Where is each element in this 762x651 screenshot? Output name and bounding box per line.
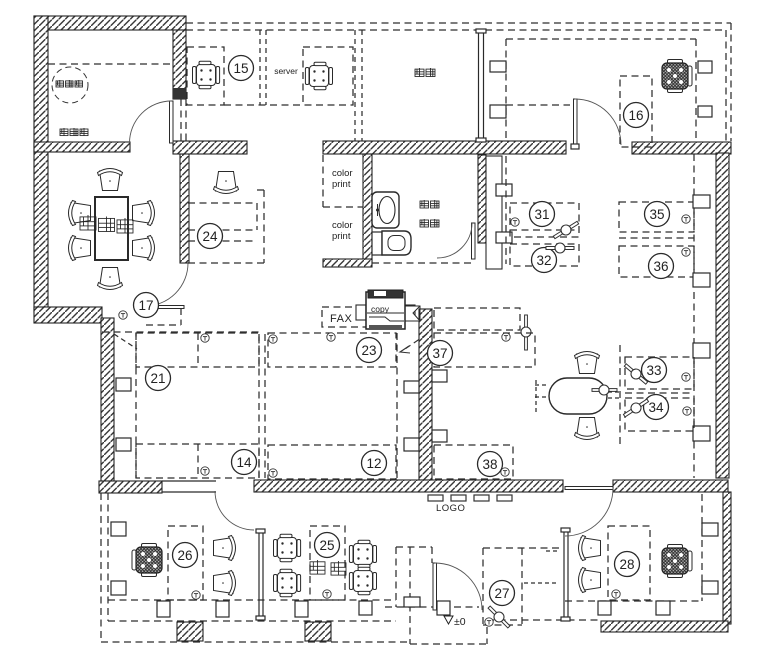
- diagonal dashed: corner room 21: [114, 334, 137, 349]
- server chair right: [305, 62, 332, 90]
- LOGO dash strip: [428, 495, 443, 501]
- guest chair 25 left b: [274, 569, 301, 597]
- sink unit: [372, 192, 399, 228]
- dashed link table left b: [535, 396, 549, 398]
- dashed partition: along right wall: [693, 154, 695, 478]
- dashed: cloak right lower outer: [185, 99, 187, 142]
- door leaf: entry: [433, 563, 437, 610]
- dashed link table right a: [608, 391, 620, 393]
- wall: bathroom right: [478, 155, 486, 243]
- room circle 24: [198, 224, 223, 249]
- svg-text:server: server: [274, 66, 298, 76]
- dashed: cloak right lower inner: [180, 99, 182, 142]
- meeting chair left 1: [69, 201, 91, 226]
- dashed: corridor line below bathroom: [372, 262, 473, 264]
- wall pier: bottom-left 1: [177, 622, 203, 641]
- cabinet right-wall 3: [693, 343, 710, 358]
- svg-text:LOGO: LOGO: [436, 503, 465, 514]
- desk 31: [510, 203, 579, 237]
- dashed wall: left lower inner: [107, 493, 109, 621]
- room circle 32: [532, 248, 557, 273]
- vestibule outer right: [486, 627, 488, 644]
- svg-text:color: color: [332, 220, 353, 231]
- guest chair 25 right b: [349, 567, 376, 595]
- circled-T symbol: [201, 467, 209, 475]
- desk 14 divider: [197, 444, 199, 478]
- cabinet right-wall 1: [693, 195, 710, 208]
- cabinet bath-right lower: [496, 232, 512, 243]
- wall block: cloak right end: [173, 88, 186, 99]
- wall: meeting room right: [180, 152, 189, 263]
- wall: corridor top band C: [632, 142, 731, 154]
- cabinet 28 upper: [702, 523, 718, 536]
- cabinet left-wall upper: [116, 378, 131, 391]
- room 27 top boundary: [483, 547, 563, 549]
- svg-text:31: 31: [534, 207, 549, 222]
- meeting chair right 2: [133, 236, 155, 261]
- wall: right outer upper: [716, 153, 729, 478]
- svg-text:print: print: [332, 179, 351, 190]
- desk 27 left: [482, 548, 484, 625]
- desk 24 right upper: [256, 203, 258, 230]
- label: toilet (2 CJK glyphs): [420, 200, 429, 208]
- cabinet 28 lower: [702, 581, 718, 594]
- room circle 38: [478, 452, 503, 477]
- dashed partition: room16 right: [695, 39, 697, 142]
- furniture leg 5: [437, 601, 450, 615]
- lamp pole right of desk: [521, 315, 531, 350]
- dashed link table right b: [608, 397, 620, 399]
- cabinet 26 wall lower: [111, 581, 126, 595]
- vestibule right upper: [431, 547, 433, 563]
- FAX desk: [322, 307, 399, 327]
- desk 24 mid a: [188, 229, 257, 231]
- circled-T symbol: [327, 333, 335, 341]
- label: reception glyph 2: [331, 561, 346, 575]
- guest chair 26 a: [214, 536, 236, 561]
- dashed corridor line a: [258, 334, 260, 478]
- dashed: room 21 top boundary: [102, 331, 259, 333]
- furniture leg 3: [295, 601, 308, 617]
- wall: meeting room bottom: [34, 307, 102, 323]
- circled-T symbol: [323, 590, 331, 598]
- glass partition 27/28 line a: [563, 531, 565, 620]
- cabinet on spine right lower: [432, 430, 447, 442]
- dashed wall: bottom outer: [101, 641, 410, 643]
- svg-text:print: print: [332, 231, 351, 242]
- dashed: color print divider: [323, 206, 363, 208]
- svg-text:35: 35: [649, 207, 664, 222]
- guest chair 25 left a: [274, 534, 301, 562]
- svg-text:25: 25: [319, 538, 334, 553]
- dashed partition: 31 left: [505, 156, 507, 264]
- circled-T symbol: [269, 335, 277, 343]
- label: storage room (2 CJK glyphs): [415, 68, 424, 77]
- room circle 37: [428, 341, 453, 366]
- task lamp 32: [546, 243, 574, 253]
- dashed corridor line b: [264, 334, 266, 478]
- cabinet 26 wall upper: [111, 522, 126, 536]
- circled-T symbol: [501, 468, 509, 476]
- level mark triangle: [444, 616, 453, 624]
- desk 24 right hook h: [257, 189, 264, 191]
- room circle 25: [315, 533, 340, 558]
- wall: right outer lower: [723, 492, 731, 624]
- room circle 31: [530, 202, 555, 227]
- dashed: bottom edge right of vestibule: [487, 619, 601, 621]
- furniture leg 4: [359, 601, 372, 615]
- dashed partition: central corridor: [396, 333, 398, 479]
- partition server left b: [265, 30, 267, 105]
- desk 24 bottom: [188, 262, 264, 264]
- guest chair 28 b: [579, 568, 601, 593]
- task lamp 27: [486, 604, 513, 631]
- desk 23: [268, 333, 396, 367]
- svg-text:15: 15: [233, 61, 248, 76]
- door leaf: room 16: [574, 99, 578, 144]
- dashed partition: rooms 21/14 left: [135, 333, 137, 478]
- room circle 14: [232, 450, 257, 475]
- door arc: bathroom: [437, 223, 472, 258]
- svg-text:23: 23: [361, 343, 376, 358]
- desk 25 (reception table): [310, 526, 345, 600]
- chair above table: [575, 352, 600, 374]
- cabinet column right of bathroom: [486, 156, 502, 269]
- window cap bottom: [476, 138, 486, 142]
- desk 34: [625, 398, 694, 431]
- circled-T symbol: [119, 311, 127, 319]
- room circle 21: [146, 366, 171, 391]
- guest chair 25 right a: [349, 540, 376, 568]
- oval meeting table: [549, 378, 607, 414]
- wall: color print room bottom: [323, 259, 372, 267]
- meeting table: [95, 197, 128, 260]
- label: shower (2 CJK glyphs): [420, 219, 429, 227]
- svg-text:28: 28: [619, 557, 634, 572]
- room circle 26: [173, 543, 198, 568]
- partition 28 cap bottom: [561, 617, 570, 621]
- desk 24 mid b: [188, 240, 257, 242]
- cabinet bath-right upper: [496, 184, 512, 196]
- circled-T symbol: [502, 333, 510, 341]
- circled-T symbol: [201, 334, 209, 342]
- desk 35: [619, 202, 694, 232]
- door leaf: meeting room (open flat): [139, 306, 184, 309]
- dashed: room 16 top: [506, 38, 696, 40]
- svg-text:27: 27: [494, 586, 509, 601]
- dashed circle: trash bin: [52, 67, 88, 103]
- desk 12: [268, 445, 396, 479]
- partition cap bottom: [256, 616, 265, 620]
- door arc: meeting room: [145, 263, 188, 306]
- task lamp 34: [622, 396, 651, 420]
- wall: top of cloak room: [34, 16, 186, 30]
- circled-T symbol: [683, 407, 691, 415]
- dashed partition: storage/16: [505, 39, 507, 138]
- vestibule left a: [395, 547, 397, 607]
- svg-text:16: 16: [628, 108, 643, 123]
- svg-text:FAX: FAX: [330, 313, 352, 325]
- room circle 33: [642, 358, 667, 383]
- wall: bottom band right: [613, 480, 728, 492]
- desk 32: [510, 244, 579, 266]
- server chair left: [193, 61, 220, 89]
- copy machine: [356, 290, 420, 329]
- wall: cloak room right: [173, 30, 186, 99]
- guest chair 28 a: [579, 536, 601, 561]
- circled-T symbol: [612, 590, 620, 598]
- desk 17 right edge: [180, 308, 182, 325]
- executive chair room 16: [662, 60, 692, 93]
- chair guide 28 a: [546, 550, 558, 552]
- executive chair room 28: [662, 545, 692, 578]
- desk 31 lower shelf: [510, 229, 575, 231]
- desk 38: [434, 445, 513, 479]
- glass window: storage right b: [483, 31, 485, 140]
- svg-text:±0: ±0: [454, 616, 466, 628]
- svg-text:21: 21: [150, 371, 165, 386]
- dashed bracket left of desks 33/34: [619, 345, 621, 445]
- cabinet left-wall lower: [116, 438, 131, 451]
- cabinet right-wall 4: [693, 426, 710, 441]
- door leaf: room 28 (open flat): [565, 487, 613, 490]
- thin wall line bottom (left of door 26): [162, 491, 216, 493]
- desk 36: [619, 246, 694, 277]
- door arc: room 26 entry: [215, 491, 254, 530]
- door arc: room 16: [575, 99, 621, 145]
- chair below table: [575, 418, 600, 440]
- room circle 34: [644, 395, 669, 420]
- task lamp 31: [551, 218, 580, 241]
- cabinet 16-left lower: [490, 105, 506, 118]
- desk 28: [608, 526, 650, 600]
- dashed boundary: top outer: [186, 22, 731, 24]
- door leaf: cloak room: [170, 101, 174, 143]
- vestibule outer bottom: [410, 643, 487, 645]
- circled-T symbol: [511, 218, 519, 226]
- meeting chair left 2: [69, 236, 91, 261]
- cabinet right-wall 2: [693, 273, 710, 287]
- svg-text:copy: copy: [371, 304, 390, 314]
- wall: central spine: [419, 309, 432, 480]
- svg-text:38: 38: [482, 457, 497, 472]
- cabinet on spine right upper: [432, 370, 447, 382]
- vestibule inner bottom: [385, 606, 479, 608]
- svg-text:14: 14: [236, 455, 252, 470]
- svg-text:36: 36: [653, 259, 668, 274]
- desk 14: [136, 444, 259, 478]
- room circle 23: [357, 338, 382, 363]
- desk 17 bottom: [146, 324, 181, 326]
- wall: left outer upper: [34, 16, 48, 312]
- dashed boundary: top-right vertical outer: [730, 23, 732, 141]
- chair room 24: [214, 172, 239, 194]
- label: reception glyph 1: [310, 560, 325, 574]
- svg-text:33: 33: [646, 363, 661, 378]
- circled-T symbol: [269, 469, 277, 477]
- dashed wall: left lower outer: [100, 493, 102, 642]
- partition server right b: [361, 30, 363, 141]
- cabinet on spine left upper: [404, 381, 419, 393]
- room circle 28: [615, 552, 640, 577]
- dashed partition right in room 28: [701, 494, 703, 601]
- glass partition 26/25 line a: [258, 532, 260, 619]
- label: hang raincoat (3 CJK glyphs): [60, 128, 68, 136]
- furniture leg 2: [216, 601, 229, 617]
- vestibule top: [396, 546, 432, 548]
- room circle 16: [624, 103, 649, 128]
- vestibule threshold step: [404, 597, 420, 607]
- meeting chair right 1: [133, 201, 155, 226]
- cabinet 16-right upper: [698, 61, 712, 73]
- wall: bottom band left: [99, 481, 162, 493]
- dashed shelf line in cloak room: [48, 63, 173, 65]
- desk 21 divider: [197, 333, 199, 367]
- cabinet 16-right lower: [698, 106, 712, 117]
- desk 15 left: [187, 47, 224, 105]
- svg-text:34: 34: [648, 400, 664, 415]
- room circle 36: [649, 254, 674, 279]
- thin wall line top (left of door 26): [162, 480, 216, 482]
- desk 27 bottom: [483, 624, 522, 626]
- dashed shelf line rooms 26/25: [108, 599, 396, 601]
- circled-T symbol: [485, 618, 493, 626]
- wall: cloak room bottom: [34, 142, 130, 152]
- chair guide 28 b: [524, 582, 558, 584]
- meeting chair top: [98, 169, 123, 191]
- door arc: cloak room: [130, 101, 172, 143]
- svg-text:17: 17: [138, 298, 153, 313]
- circled-T symbol: [192, 591, 200, 599]
- desk 27 right: [521, 548, 523, 625]
- wall: bottom band middle: [254, 480, 563, 492]
- circled-T symbol: [682, 373, 690, 381]
- svg-text:37: 37: [432, 346, 447, 361]
- svg-text:26: 26: [177, 548, 192, 563]
- dashed: desk 16 shelf: [506, 104, 570, 106]
- label: meeting room (3 CJK glyphs): [80, 215, 96, 230]
- executive chair room 26: [132, 544, 162, 577]
- svg-text:12: 12: [366, 456, 381, 471]
- furniture leg 1: [157, 601, 170, 617]
- desk 24 right hook v: [263, 190, 265, 263]
- wall: corridor top band A: [173, 141, 247, 154]
- label: trash bin (3 CJK glyphs): [56, 80, 64, 87]
- door arc: room 28: [565, 488, 613, 536]
- dashed shelf line room 28: [565, 600, 702, 602]
- dashed desk line server middle: [224, 104, 303, 106]
- desk 33: [625, 357, 694, 389]
- desk 16: [620, 76, 652, 147]
- room circle 27: [490, 581, 515, 606]
- furniture leg 7: [656, 601, 670, 615]
- glass window: storage right a: [478, 31, 480, 140]
- svg-text:color: color: [332, 168, 353, 179]
- dashed wall: bottom inner: [108, 620, 396, 622]
- desk 35 lower shelf: [619, 237, 694, 239]
- wall: bathroom left: [363, 154, 372, 262]
- partition 28 cap top: [561, 528, 570, 532]
- svg-text:24: 24: [202, 229, 218, 244]
- door 16 foot block: [571, 144, 579, 149]
- partition server left a: [259, 30, 261, 105]
- meeting chair bottom: [98, 268, 123, 290]
- room circle 17: [134, 293, 159, 318]
- wall: bottom-right band: [601, 621, 728, 632]
- wall pier: bottom-left 2: [305, 622, 331, 641]
- room circle 35: [645, 202, 670, 227]
- cabinet on spine left lower: [404, 438, 419, 451]
- partition cap top: [256, 529, 265, 533]
- furniture leg 6: [598, 601, 611, 615]
- circled-T symbol: [682, 248, 690, 256]
- partition server right a: [354, 30, 356, 141]
- desk 37: [434, 333, 535, 367]
- glass partition 26/25 line b: [262, 532, 264, 619]
- room circle 15: [229, 56, 254, 81]
- glass partition 27/28 line b: [567, 531, 569, 620]
- room circle 12: [362, 451, 387, 476]
- table lamp: [592, 385, 617, 395]
- svg-text:32: 32: [536, 253, 551, 268]
- desk above room 37: [434, 308, 520, 330]
- guest chair 26 b: [214, 571, 236, 596]
- wall: corridor top band B: [323, 141, 566, 154]
- vestibule left b: [409, 547, 411, 644]
- dashed boundary: top-right vertical inner: [725, 30, 727, 141]
- window cap top: [476, 29, 486, 33]
- wall: left outer middle: [101, 318, 114, 481]
- desk 33/34 shelf: [625, 392, 694, 394]
- dashed boundary: top inner: [186, 29, 726, 31]
- door arc: entry: [435, 563, 482, 610]
- desk 21: [136, 333, 259, 367]
- desk 15 right: [303, 47, 353, 105]
- circled-T symbol: [682, 215, 690, 223]
- desk 24 top: [188, 202, 257, 204]
- cabinet 16-left upper: [490, 61, 506, 72]
- desk 26: [168, 526, 203, 600]
- toilet: [372, 232, 382, 255]
- door leaf: bathroom: [472, 223, 476, 259]
- dashed arrow into room 23: [402, 334, 427, 351]
- dashed bracket left of table: [535, 380, 537, 412]
- dashed partition: color print left: [322, 155, 324, 207]
- task lamp 33: [622, 361, 650, 387]
- dashed link table left a: [535, 384, 549, 386]
